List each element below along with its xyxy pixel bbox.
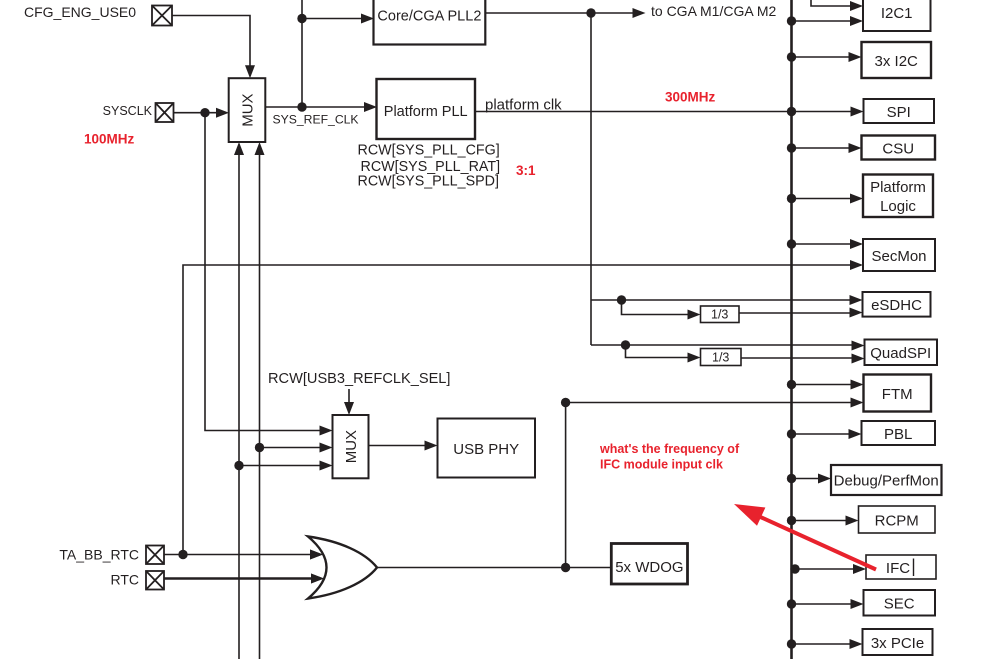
wire WDOG tap to FTM lower input — [566, 402, 857, 404]
svg-text:Platform: Platform — [870, 179, 926, 196]
svg-text:TA_BB_RTC: TA_BB_RTC — [59, 547, 139, 563]
svg-text:FTM: FTM — [882, 386, 913, 403]
node SYSCLK junction — [200, 108, 209, 117]
node 3x PCIe bus junction — [787, 639, 796, 648]
svg-text:SPI: SPI — [887, 104, 911, 121]
wire SYS_REF_CLK (MUX U1 out to Platform PLL) — [265, 106, 370, 108]
svg-text:1/3: 1/3 — [712, 350, 729, 364]
wire vertical FTM tap riser — [565, 403, 567, 568]
wire I2C1 upper input from top — [811, 0, 856, 6]
svg-text:USB PHY: USB PHY — [453, 441, 519, 458]
wire RTC to OR gate input 2 — [164, 577, 316, 580]
node PBL bus junction — [787, 429, 796, 438]
wire 3x PCIe input — [792, 643, 857, 645]
node QuadSPI divider tap — [621, 340, 630, 349]
svg-text:RCW[SYS_PLL_CFG]: RCW[SYS_PLL_CFG] — [358, 143, 500, 159]
node Platform Logic bus junction — [787, 194, 796, 203]
wire to divider 1/3 (eSDHC) — [622, 300, 695, 315]
text cursor after IFC — [913, 559, 915, 577]
block SPI — [864, 99, 935, 123]
wire divider 1/3 out to eSDHC lower input — [739, 312, 856, 314]
wire OR gate output to 5x WDOG — [377, 567, 611, 569]
wire FTM upper input — [792, 384, 858, 386]
wire SYSCLK to MUX U1 left — [174, 112, 223, 114]
wire MUX U2 input 2 — [260, 447, 327, 449]
wire 3x I2C input — [792, 56, 856, 58]
block 3x PCIe — [863, 629, 933, 655]
wire Core/CGA PLL2 output to CGA M1/M2 — [485, 12, 633, 14]
node SYS_REF_CLK junction — [297, 102, 306, 111]
svg-text:MUX: MUX — [239, 93, 256, 126]
svg-text:SEC: SEC — [884, 596, 915, 613]
svg-text:MUX: MUX — [343, 430, 360, 463]
mux U2 — [333, 415, 369, 478]
wire riser to top edge — [301, 0, 303, 107]
block 3x I2C — [862, 42, 932, 78]
svg-text:RCW[SYS_PLL_SPD]: RCW[SYS_PLL_SPD] — [358, 173, 499, 189]
node platform clk bus junction — [787, 107, 796, 116]
wire SecMon upper input — [792, 243, 857, 245]
block FTM — [864, 375, 932, 412]
block Debug/PerfMon — [831, 465, 942, 495]
block RCPM — [859, 506, 936, 533]
svg-text:IFC: IFC — [886, 560, 910, 577]
svg-text:3x PCIe: 3x PCIe — [871, 635, 924, 652]
node WDOG line junction — [561, 563, 570, 572]
svg-text:eSDHC: eSDHC — [871, 297, 922, 314]
wire differential clock A into MUX U1 bottom — [238, 148, 240, 659]
wire eSDHC upper input — [591, 299, 856, 301]
svg-text:1/3: 1/3 — [711, 308, 728, 322]
svg-text:RCPM: RCPM — [875, 512, 919, 529]
svg-text:SYSCLK: SYSCLK — [103, 104, 153, 118]
node FTM bus junction — [787, 380, 796, 389]
wire to Core/CGA PLL2 input — [302, 18, 367, 20]
svg-text:CSU: CSU — [882, 140, 914, 157]
node SEC bus junction — [787, 599, 796, 608]
wire CSU input — [792, 147, 856, 149]
node MUX U2 input 3 tap — [234, 461, 243, 470]
svg-text:to CGA M1/CGA M2: to CGA M1/CGA M2 — [651, 3, 776, 19]
divider 1/3 (QuadSPI) — [701, 349, 742, 366]
block IFC — [866, 555, 936, 579]
svg-text:SYS_REF_CLK: SYS_REF_CLK — [273, 113, 359, 127]
wire TA_BB_RTC to OR gate input 1 — [164, 554, 316, 556]
block USB PHY — [438, 419, 536, 478]
wire SEC input — [792, 603, 858, 605]
svg-text:platform clk: platform clk — [485, 97, 562, 114]
node I2C1 bus junction — [787, 16, 796, 25]
node 3x I2C bus junction — [787, 52, 796, 61]
node TA_BB_RTC junction — [178, 550, 187, 559]
svg-text:Platform PLL: Platform PLL — [384, 104, 468, 120]
svg-text:Core/CGA PLL2: Core/CGA PLL2 — [377, 9, 481, 25]
svg-text:I2C1: I2C1 — [881, 5, 913, 22]
block SEC — [864, 590, 936, 616]
block PBL — [862, 421, 936, 445]
wire I2C1 lower input — [792, 20, 857, 22]
svg-text:what's the frequency of: what's the frequency of — [599, 442, 740, 456]
svg-text:RTC: RTC — [110, 572, 139, 588]
wire IFC input — [792, 568, 860, 570]
block 5x WDOG — [611, 544, 687, 585]
svg-text:IFC module input clk: IFC module input clk — [600, 458, 723, 472]
block SecMon — [863, 239, 935, 271]
block eSDHC — [863, 292, 931, 317]
node CSU bus junction — [787, 143, 796, 152]
or-gate input arrowheads — [310, 550, 323, 560]
node Debug/PerfMon bus junction — [787, 474, 796, 483]
wire MUX U2 output to USB PHY — [369, 445, 432, 447]
wire QuadSPI upper input — [591, 344, 858, 346]
node Core PLL2 input junction — [297, 14, 306, 23]
node eSDHC divider tap — [617, 295, 626, 304]
wire MUX U2 input 3 — [239, 465, 326, 467]
node FTM lower corner junction — [561, 398, 570, 407]
wire PBL input — [792, 433, 856, 435]
block QuadSPI — [865, 340, 938, 366]
pll U3 Core/CGA PLL2 — [374, 0, 486, 45]
pll U4 Platform PLL — [377, 79, 476, 139]
node RCPM bus junction — [787, 516, 796, 525]
wire divider feed drop (from CGA out junction) — [590, 13, 592, 345]
wire SYSCLK drop to MUX U2 input 1 — [205, 113, 326, 431]
node CGA output junction — [586, 8, 595, 17]
svg-text:PBL: PBL — [884, 426, 912, 443]
wire divider 1/3 out to QuadSPI lower input — [741, 357, 858, 359]
wire Debug/PerfMon input — [792, 478, 825, 480]
wire Platform Logic input — [792, 198, 857, 200]
svg-text:3:1: 3:1 — [516, 163, 536, 178]
wire CFG_ENG_USE0 to MUX U1 top — [172, 16, 250, 71]
block CSU — [862, 136, 936, 160]
wire TA_BB_RTC riser to SecMon lower input — [183, 265, 856, 555]
pad CFG_ENG_USE0 — [152, 6, 172, 26]
wire differential clock B into MUX U1 bottom — [259, 148, 261, 659]
svg-text:300MHz: 300MHz — [665, 90, 716, 105]
node MUX U2 input 2 tap — [255, 443, 264, 452]
pad TA_BB_RTC — [146, 546, 164, 565]
wire clock bus (vertical) — [790, 0, 793, 659]
mux U1 — [229, 78, 266, 142]
svg-text:QuadSPI: QuadSPI — [870, 345, 931, 362]
wire RCW[USB3_REFCLK_SEL] select into MUX U2 top — [348, 389, 350, 407]
pad SYSCLK — [156, 103, 174, 122]
svg-text:3x I2C: 3x I2C — [875, 53, 919, 70]
svg-text:5x WDOG: 5x WDOG — [615, 559, 683, 576]
wire to divider 1/3 (QuadSPI) — [626, 345, 695, 358]
svg-text:Debug/PerfMon: Debug/PerfMon — [834, 473, 939, 490]
wire RCPM input — [792, 520, 853, 522]
svg-text:SecMon: SecMon — [871, 248, 926, 265]
node SecMon bus junction — [787, 239, 796, 248]
node IFC bus junction — [790, 564, 799, 573]
block Platform Logic — [863, 175, 933, 218]
block I2C1 — [863, 0, 931, 31]
svg-text:Logic: Logic — [880, 198, 916, 215]
divider 1/3 (eSDHC) — [701, 306, 740, 323]
svg-text:100MHz: 100MHz — [84, 132, 135, 147]
svg-text:RCW[USB3_REFCLK_SEL]: RCW[USB3_REFCLK_SEL] — [268, 371, 450, 387]
wire platform clk to bus and SPI — [475, 111, 857, 113]
or-gate G1 — [308, 537, 377, 599]
pad RTC — [146, 571, 164, 590]
svg-text:CFG_ENG_USE0: CFG_ENG_USE0 — [24, 4, 136, 20]
annotation red arrow to IFC — [734, 504, 876, 570]
